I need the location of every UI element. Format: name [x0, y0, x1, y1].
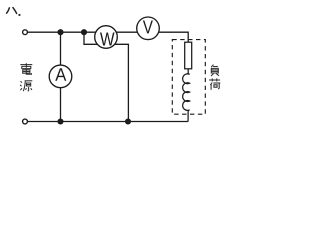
- inductor L (load coil, with leads): [183, 69, 190, 122]
- label DEN (kanji electric, of 電源): [20, 63, 32, 74]
- ammeter letter A: [55, 68, 66, 80]
- terminal top: [23, 30, 28, 35]
- voltmeter V circle: [137, 17, 160, 40]
- load dashed boundary box: [172, 40, 205, 115]
- junction dot ammeter bottom: [57, 118, 63, 124]
- label period after HA: [19, 14, 21, 16]
- label GEN (kanji source, of 電源): [20, 81, 32, 91]
- label FU (kanji load 負 upper): [211, 65, 219, 76]
- wire ammeter branch: [60, 32, 62, 121]
- label HA (katakana problem number): [7, 8, 17, 14]
- resistor R (load): [185, 42, 192, 69]
- wire wattmeter potential coil branch: [84, 32, 128, 121]
- label KA (kanji load 荷 lower): [209, 78, 220, 89]
- junction dot wattmeter bottom: [125, 118, 131, 124]
- wire top bus: [25, 32, 188, 42]
- voltmeter letter V: [143, 21, 153, 34]
- junction dot ammeter top: [57, 29, 63, 35]
- wattmeter W circle: [95, 26, 118, 49]
- junction dot wattmeter branch: [81, 29, 87, 35]
- terminal bottom: [23, 119, 28, 124]
- ammeter A circle: [49, 65, 72, 88]
- wattmeter letter W: [100, 33, 115, 46]
- wire bottom bus: [25, 121, 188, 123]
